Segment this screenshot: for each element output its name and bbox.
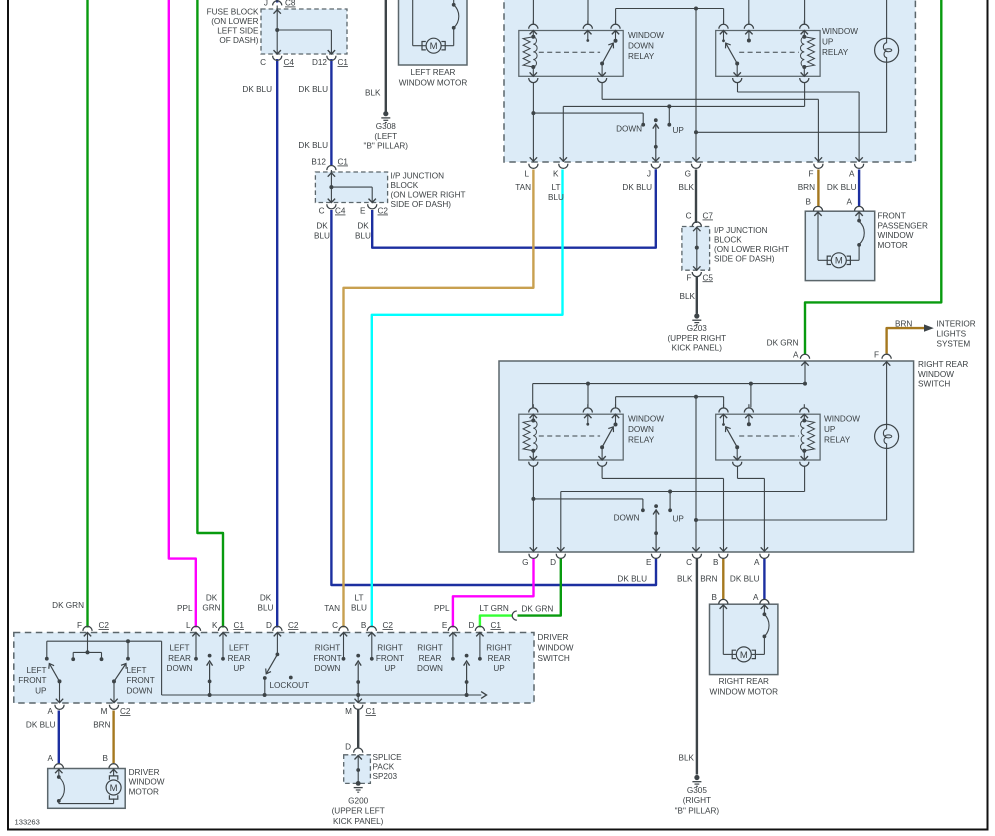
svg-text:C8: C8: [285, 0, 296, 8]
svg-text:D: D: [266, 621, 272, 630]
svg-text:"B" PILLAR): "B" PILLAR): [364, 142, 409, 151]
wire terminal F to lamp top: [886, 361, 888, 424]
svg-text:TAN: TAN: [515, 183, 531, 192]
wire left-front contact rail: [47, 640, 162, 642]
junction feed-A: [803, 382, 807, 386]
svg-text:RIGHT: RIGHT: [315, 644, 340, 653]
right rear window motor internals: [719, 599, 728, 604]
svg-text:UP: UP: [233, 664, 245, 673]
wire relay2 pivot to terminal A: [737, 466, 739, 478]
svg-text:LOCKOUT: LOCKOUT: [270, 681, 310, 690]
svg-text:D: D: [550, 558, 556, 567]
svg-text:M: M: [110, 783, 118, 794]
junction feed-relay2 mid: [749, 382, 753, 386]
window up relay (left rear switch): [716, 31, 820, 77]
svg-text:F: F: [686, 273, 691, 282]
svg-text:F: F: [77, 621, 82, 630]
svg-text:B: B: [103, 754, 109, 763]
svg-text:DK: DK: [260, 594, 272, 603]
svg-text:C2: C2: [288, 621, 299, 630]
svg-text:DK BLU: DK BLU: [730, 575, 760, 584]
wire DK BLU switch A to rr motor A: [763, 559, 765, 600]
svg-text:BLK: BLK: [677, 575, 693, 584]
svg-text:RIGHT REAR: RIGHT REAR: [719, 677, 769, 686]
wire DK GRN switch D to connector: [518, 559, 561, 616]
right rear rocker contacts: [452, 633, 454, 658]
svg-text:G305: G305: [687, 786, 707, 795]
svg-text:DOWN: DOWN: [167, 664, 193, 673]
svg-text:(ON LOWER RIGHT: (ON LOWER RIGHT: [714, 245, 789, 254]
left rear window motor internals: [412, 0, 414, 46]
svg-text:M: M: [345, 707, 352, 716]
svg-text:PASSENGER: PASSENGER: [878, 221, 928, 230]
ground G203: [694, 313, 699, 318]
svg-text:"B" PILLAR): "B" PILLAR): [675, 806, 720, 815]
svg-text:DOWN: DOWN: [628, 425, 654, 434]
svg-text:DK: DK: [357, 222, 369, 231]
svg-text:F: F: [808, 170, 813, 179]
svg-text:LT: LT: [552, 183, 561, 192]
svg-text:C1: C1: [234, 621, 245, 630]
top box bottom connectors: [529, 164, 538, 169]
wire DK BLU fuse block C-C4 to driver switch D: [276, 59, 278, 628]
lamp (right rear switch illumination): [875, 424, 899, 448]
svg-text:DK BLU: DK BLU: [242, 85, 272, 94]
feed rail: [533, 383, 805, 385]
svg-text:BLOCK: BLOCK: [391, 181, 419, 190]
svg-text:UP: UP: [824, 425, 836, 434]
wire DK BLU driver A to motor A: [58, 711, 60, 764]
svg-text:L: L: [186, 621, 191, 630]
ground G305: [694, 775, 699, 780]
svg-text:DK BLU: DK BLU: [298, 85, 328, 94]
svg-text:E: E: [442, 621, 448, 630]
ground G200: [357, 770, 359, 782]
svg-text:FRONT: FRONT: [376, 654, 404, 663]
wire relay1 coil to terminal G: [532, 466, 534, 552]
svg-text:DOWN: DOWN: [616, 125, 642, 134]
svg-text:DK BLU: DK BLU: [26, 721, 56, 730]
left rear window switch (box, cut off at top): [504, 0, 915, 162]
svg-text:DK BLU: DK BLU: [298, 141, 328, 150]
svg-text:BLU: BLU: [351, 604, 367, 613]
svg-text:WINDOW: WINDOW: [628, 31, 664, 40]
svg-text:FRONT: FRONT: [18, 676, 46, 685]
wire terminal A top to feed rail: [804, 361, 806, 384]
wire feed to relay1 coil: [532, 384, 534, 408]
junction lamp tap on C wire: [694, 518, 698, 522]
svg-text:RELAY: RELAY: [628, 52, 655, 61]
right front rocker arm: [356, 654, 360, 658]
svg-text:DK BLU: DK BLU: [617, 575, 647, 584]
rocker arm terminal J: [654, 118, 658, 122]
svg-text:SP203: SP203: [373, 772, 398, 781]
wire DK GRN to driver switch F: [86, 0, 88, 628]
svg-text:B12: B12: [311, 158, 326, 167]
junction feed-relay1 mid: [586, 382, 590, 386]
front passenger window motor internals: [813, 206, 822, 211]
fuse block internals: [276, 6, 278, 10]
junction DOWN stud tap: [531, 111, 535, 115]
wire DK BLU junction E-C2 to switch J: [372, 169, 656, 247]
svg-text:A: A: [793, 351, 799, 360]
svg-text:G: G: [685, 170, 691, 179]
svg-text:RELAY: RELAY: [628, 435, 655, 444]
svg-text:BLU: BLU: [548, 193, 564, 202]
svg-text:FUSE BLOCK: FUSE BLOCK: [207, 8, 259, 17]
wire BLK G to junction C7: [695, 170, 697, 224]
bottom box bottom connectors: [529, 554, 538, 559]
svg-text:(LEFT: (LEFT: [374, 132, 397, 141]
bus junction left rear: [208, 693, 212, 697]
junction UP stud tap: [668, 490, 672, 494]
svg-text:DK GRN: DK GRN: [52, 601, 84, 610]
switch LEFT FRONT DOWN: [112, 679, 116, 683]
svg-text:BRN: BRN: [93, 721, 110, 730]
svg-text:REAR: REAR: [168, 654, 191, 663]
wire BLK left rear motor to G308: [385, 0, 387, 112]
svg-text:133263: 133263: [15, 818, 40, 827]
left rear rocker arm: [208, 654, 212, 658]
svg-text:PPL: PPL: [434, 604, 450, 613]
svg-text:DK GRN: DK GRN: [522, 605, 554, 614]
svg-text:C2: C2: [383, 621, 394, 630]
svg-text:C: C: [686, 212, 692, 221]
right rear window motor box: [710, 604, 778, 674]
wire relay1 coil to terminal L: [532, 83, 534, 163]
svg-text:SYSTEM: SYSTEM: [937, 339, 971, 348]
svg-text:BLOCK: BLOCK: [714, 236, 742, 245]
i/p junction block 2 box: [682, 227, 710, 271]
svg-text:C2: C2: [378, 207, 389, 216]
wire DK BLU A to passenger motor A: [858, 170, 860, 207]
svg-text:A: A: [48, 754, 54, 763]
i/p junction 2 internals: [692, 222, 701, 227]
svg-text:BLU: BLU: [314, 232, 330, 241]
motor M driver: [106, 780, 121, 795]
svg-text:UP: UP: [35, 686, 47, 695]
wire bus to terminal M: [357, 695, 359, 703]
svg-text:A: A: [754, 558, 760, 567]
wire PPL switch G to driver switch E: [453, 559, 534, 628]
wire feed to relay1 mid pin: [587, 384, 589, 408]
svg-text:BLK: BLK: [365, 89, 381, 98]
junction node C feed: [694, 395, 698, 399]
wire rail to bus: [161, 641, 163, 695]
svg-text:E: E: [646, 558, 652, 567]
left front down fixed contact: [127, 641, 129, 659]
svg-text:DRIVER: DRIVER: [129, 768, 160, 777]
splice pack SP203 box: [344, 755, 371, 784]
svg-text:BLK: BLK: [679, 754, 695, 763]
wire relay1 NO contact to relay2 NO contact: [616, 8, 724, 10]
svg-text:WINDOW: WINDOW: [878, 231, 914, 240]
wire stub to relay1 mid pin: [587, 0, 589, 24]
svg-text:C4: C4: [335, 207, 346, 216]
svg-text:B: B: [713, 558, 719, 567]
left front up fixed contact: [46, 641, 48, 659]
wire DK BLU fuse feed tick: [276, 0, 278, 3]
svg-text:INTERIOR: INTERIOR: [937, 320, 976, 329]
svg-text:BRN: BRN: [895, 320, 912, 329]
svg-text:K: K: [553, 170, 559, 179]
svg-text:KICK PANEL): KICK PANEL): [672, 344, 723, 353]
switch LOCKOUT: [276, 633, 278, 653]
svg-text:D: D: [345, 743, 351, 752]
svg-text:PPL: PPL: [177, 604, 193, 613]
svg-text:I/P JUNCTION: I/P JUNCTION: [391, 172, 445, 181]
wire lamp bottom to G wire: [886, 62, 888, 132]
svg-text:LEFT: LEFT: [26, 666, 46, 675]
wire relay1 NO contact to relay2 NO contact: [616, 396, 724, 398]
motor M left rear: [426, 38, 441, 53]
wire BRN F to passenger motor B: [817, 170, 819, 207]
svg-text:UP: UP: [493, 664, 505, 673]
svg-text:RIGHT: RIGHT: [486, 644, 511, 653]
svg-text:BLK: BLK: [679, 183, 695, 192]
svg-text:(UPPER LEFT: (UPPER LEFT: [332, 807, 385, 816]
svg-text:LT GRN: LT GRN: [480, 604, 509, 613]
svg-text:LEFT: LEFT: [229, 644, 249, 653]
svg-text:G: G: [522, 558, 528, 567]
svg-text:FRONT: FRONT: [878, 212, 906, 221]
right rear window switch box: [499, 361, 914, 552]
svg-text:REAR: REAR: [419, 654, 442, 663]
svg-text:MOTOR: MOTOR: [878, 241, 908, 250]
F feed contact studs: [73, 651, 101, 653]
svg-text:D: D: [468, 621, 474, 630]
left rear window motor box: [399, 0, 468, 65]
svg-text:M: M: [835, 256, 843, 267]
wire relay1 pivot to terminal F: [601, 83, 603, 100]
svg-text:D12: D12: [312, 58, 327, 67]
svg-text:C1: C1: [338, 158, 349, 167]
svg-text:KICK PANEL): KICK PANEL): [333, 817, 384, 826]
svg-text:BLU: BLU: [258, 604, 274, 613]
svg-text:OF DASH): OF DASH): [219, 36, 258, 45]
wire relay2 coil to terminal K: [804, 83, 806, 107]
svg-text:RELAY: RELAY: [824, 435, 851, 444]
wire node C to terminal C: [695, 397, 697, 552]
svg-text:UP: UP: [384, 664, 396, 673]
svg-text:DOWN: DOWN: [417, 664, 443, 673]
rocker arm terminal E: [654, 504, 658, 508]
window up relay (right rear switch): [716, 414, 820, 460]
svg-text:WINDOW: WINDOW: [129, 778, 165, 787]
lockout open contact stud: [289, 676, 293, 680]
svg-text:B: B: [361, 621, 367, 630]
svg-text:DRIVER: DRIVER: [538, 633, 569, 642]
wire relay2 pivot to terminal A: [737, 83, 739, 93]
junction DOWN stud tap: [531, 497, 535, 501]
svg-text:J: J: [647, 170, 651, 179]
svg-text:BLK: BLK: [680, 292, 696, 301]
bus junction right rear: [465, 693, 469, 697]
svg-text:L: L: [524, 170, 529, 179]
svg-text:BLU: BLU: [355, 232, 371, 241]
svg-text:C5: C5: [703, 273, 714, 282]
wire lamp bottom to C wire: [886, 449, 888, 520]
svg-text:A: A: [847, 198, 853, 207]
driver switch top edge connectors: [83, 626, 92, 631]
svg-text:A: A: [753, 593, 759, 602]
splice pack internals: [357, 755, 359, 770]
svg-text:WINDOW: WINDOW: [628, 415, 664, 424]
svg-text:C: C: [319, 207, 325, 216]
svg-text:M: M: [740, 650, 748, 661]
wire BRN to interior lights: [887, 328, 925, 353]
svg-text:REAR: REAR: [488, 654, 511, 663]
svg-text:SPLICE: SPLICE: [373, 753, 403, 762]
svg-text:SWITCH: SWITCH: [538, 654, 570, 663]
svg-text:DOWN: DOWN: [628, 41, 654, 50]
driver window switch box: [14, 633, 534, 704]
motor M right rear: [736, 647, 751, 662]
svg-text:DK: DK: [316, 222, 328, 231]
svg-text:M: M: [430, 41, 438, 52]
svg-text:WINDOW: WINDOW: [538, 643, 574, 652]
svg-text:C7: C7: [703, 212, 714, 221]
motor M front passenger: [831, 253, 846, 268]
svg-text:SWITCH: SWITCH: [918, 380, 950, 389]
svg-text:UP: UP: [822, 37, 834, 46]
junction UP stud tap: [667, 104, 671, 108]
fuse block box: [261, 9, 347, 54]
window down relay (left rear switch): [519, 31, 623, 77]
svg-text:LIGHTS: LIGHTS: [937, 329, 967, 338]
svg-text:UP: UP: [673, 126, 685, 135]
DOWN contact stud: [533, 498, 643, 500]
svg-text:C2: C2: [99, 621, 110, 630]
wire F feed: [87, 633, 89, 653]
svg-text:DK BLU: DK BLU: [827, 183, 857, 192]
svg-text:(ON LOWER RIGHT: (ON LOWER RIGHT: [391, 191, 466, 200]
wire stub to lamp top: [886, 0, 888, 38]
svg-text:A: A: [849, 170, 855, 179]
svg-text:SIDE OF DASH): SIDE OF DASH): [714, 255, 775, 264]
svg-text:DK: DK: [206, 594, 218, 603]
svg-text:LT: LT: [355, 594, 364, 603]
svg-text:B: B: [712, 593, 718, 602]
svg-text:LEFT: LEFT: [127, 666, 147, 675]
svg-text:DOWN: DOWN: [614, 514, 640, 523]
wire feed to relay2 mid pin: [750, 384, 752, 408]
DOWN contact stud: [533, 112, 643, 114]
wire relay2 coil to terminal D: [804, 466, 806, 491]
svg-text:WINDOW: WINDOW: [824, 415, 860, 424]
wire DK BLU junction C-C4 to switch E: [331, 210, 656, 585]
wire stub to relay2 coil top: [804, 0, 806, 24]
svg-text:C1: C1: [491, 621, 502, 630]
svg-text:MOTOR: MOTOR: [129, 787, 159, 796]
wire relay1 pivot to terminal B: [601, 466, 603, 478]
svg-text:BRN: BRN: [700, 575, 717, 584]
wire BLK junction C5 to G203: [696, 276, 698, 314]
svg-text:WINDOW: WINDOW: [918, 370, 954, 379]
wire BRN switch B to rr motor B: [722, 559, 724, 600]
wire stub to relay2 mid pin: [748, 0, 750, 24]
svg-text:DOWN: DOWN: [315, 664, 341, 673]
svg-text:LEFT REAR: LEFT REAR: [411, 68, 456, 77]
svg-text:RIGHT REAR: RIGHT REAR: [918, 360, 968, 369]
svg-text:UP: UP: [673, 515, 685, 524]
svg-text:G200: G200: [348, 797, 368, 806]
ground G308: [383, 111, 388, 116]
svg-text:F: F: [874, 351, 879, 360]
window down relay (right rear switch): [519, 414, 623, 460]
front passenger window motor box: [805, 211, 874, 280]
svg-text:PACK: PACK: [373, 763, 395, 772]
svg-text:DOWN: DOWN: [127, 686, 153, 695]
svg-text:C: C: [260, 58, 266, 67]
switch LEFT FRONT UP: [58, 679, 62, 683]
svg-text:C1: C1: [338, 58, 349, 67]
svg-text:J: J: [264, 0, 268, 8]
svg-text:WINDOW MOTOR: WINDOW MOTOR: [710, 687, 779, 696]
svg-text:B: B: [806, 198, 812, 207]
UP contact stud: [669, 492, 671, 511]
svg-text:I/P JUNCTION: I/P JUNCTION: [714, 226, 768, 235]
svg-text:(UPPER RIGHT: (UPPER RIGHT: [667, 334, 726, 343]
svg-text:FRONT: FRONT: [127, 676, 155, 685]
wire stub to relay1 coil top: [532, 0, 534, 24]
svg-text:RELAY: RELAY: [822, 48, 849, 57]
wire BRN driver M to motor B: [112, 711, 114, 764]
svg-text:BRN: BRN: [798, 183, 815, 192]
junction lamp tap on G wire: [694, 130, 698, 134]
wire PPL to driver switch L: [169, 0, 196, 628]
svg-text:A: A: [48, 707, 54, 716]
svg-text:LEFT: LEFT: [169, 644, 189, 653]
svg-text:FRONT: FRONT: [313, 654, 341, 663]
i/p junction 1 internals: [327, 166, 336, 171]
bus wire with arrow: [162, 694, 482, 696]
i/p junction block 1 box: [315, 172, 387, 203]
left rear rocker contacts: [195, 633, 197, 658]
junction rail to left-front-down: [126, 639, 130, 643]
wire DK GRN to driver switch K: [197, 0, 223, 628]
connector J C8 at top: [273, 1, 282, 6]
svg-text:C2: C2: [120, 707, 131, 716]
svg-text:C1: C1: [366, 707, 377, 716]
driver window motor box: [48, 769, 126, 809]
svg-text:DK BLU: DK BLU: [622, 183, 652, 192]
svg-text:C: C: [686, 558, 692, 567]
svg-text:G203: G203: [687, 324, 707, 333]
wire TAN L to driver switch C: [344, 170, 534, 628]
svg-text:C: C: [332, 621, 338, 630]
wire LT GRN connector to driver switch D: [480, 616, 512, 628]
right front rocker contacts: [343, 633, 345, 658]
svg-text:RIGHT: RIGHT: [377, 644, 402, 653]
wire BLK driver M-C1 to splice D: [357, 710, 359, 748]
svg-text:SIDE OF DASH): SIDE OF DASH): [391, 200, 452, 209]
wire BLK switch C to G305: [696, 559, 698, 775]
svg-text:M: M: [101, 707, 108, 716]
svg-text:E: E: [360, 207, 366, 216]
svg-text:GRN: GRN: [202, 604, 220, 613]
lamp (left rear switch illumination): [875, 38, 899, 62]
wire DK GRN interior to switch A: [805, 0, 941, 355]
svg-text:(ON LOWER: (ON LOWER: [211, 17, 258, 26]
svg-text:RIGHT: RIGHT: [417, 644, 442, 653]
wire node G to terminal G: [695, 9, 697, 163]
bus junction lockout: [263, 693, 267, 697]
UP contact stud: [668, 106, 670, 124]
svg-text:G308: G308: [376, 122, 396, 131]
right rear rocker arm: [465, 654, 469, 658]
svg-text:K: K: [212, 621, 218, 630]
